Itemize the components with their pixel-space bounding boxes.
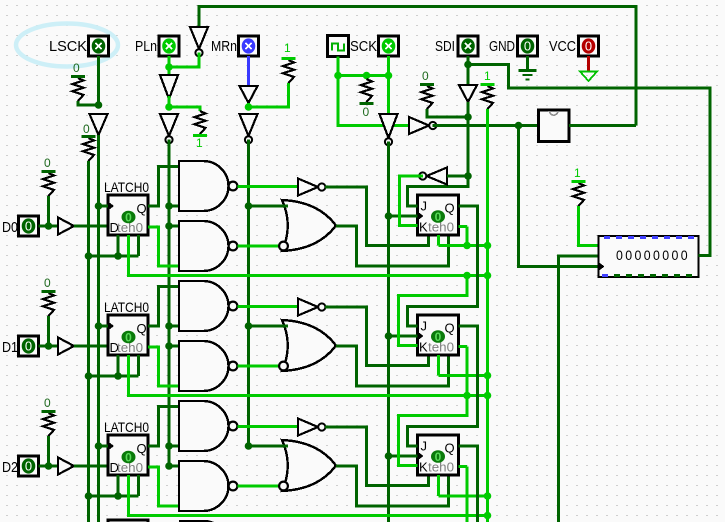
- wire MRn pin down: [247, 56, 250, 86]
- resistor pull-down on D0: [42, 156, 56, 196]
- wire register clock line down: [519, 126, 599, 267]
- svg-text:Q: Q: [445, 321, 455, 336]
- wire PLn node to buffer: [168, 67, 171, 75]
- wire buffer out down: [467, 102, 470, 176]
- junction PLn node: [165, 63, 173, 71]
- svg-text:LATCH0: LATCH0: [104, 179, 149, 195]
- wire D0 pin to buffer: [39, 225, 59, 228]
- partial NAND gate of next row at bottom edge: [179, 521, 228, 522]
- power symbol: [580, 72, 597, 82]
- inverter from top rail: [190, 27, 208, 56]
- svg-text:J: J: [421, 199, 428, 214]
- ground symbol: [519, 71, 537, 80]
- wire latch Q jog to NAND upper input row 0: [148, 167, 179, 207]
- wire MRn reset rail down: [247, 140, 250, 447]
- svg-text:D1: D1: [2, 339, 18, 356]
- buffer D0: [58, 218, 74, 235]
- wire NAND A out to inverter row 2: [238, 425, 299, 428]
- wire NAND A out to inverter row 0: [238, 185, 299, 188]
- junction SDI mid node: [464, 113, 472, 121]
- wire JK pin2 down row 2: [437, 475, 440, 496]
- wire Qn-pull tie row 1: [439, 374, 488, 377]
- wire clock branch to register-clock inverter: [338, 76, 409, 126]
- svg-text:1: 1: [284, 41, 291, 55]
- resistor pull on LSCK node: [71, 61, 85, 101]
- svg-text:0: 0: [422, 69, 429, 83]
- wire JK Qn out row 2: [459, 465, 468, 468]
- svg-text:0: 0: [83, 122, 90, 136]
- wire Qn2 drop: [466, 467, 469, 522]
- wire JK pin2 down row 0: [437, 235, 440, 246]
- junction D1 node: [45, 342, 53, 350]
- resistor pull-up source: [481, 69, 495, 109]
- wire latch pin1 down row 0: [117, 235, 120, 256]
- wire latch Q jog to NAND upper input row 1: [148, 287, 179, 327]
- buffer SDI: [459, 85, 477, 102]
- wire NAND B out to OR input row 0: [238, 245, 280, 248]
- wire resistor to D2 node: [47, 436, 50, 466]
- inverter PLn to load rail: [160, 114, 178, 143]
- svg-text:1: 1: [196, 136, 203, 150]
- resistor pull-up on MRn node: [282, 41, 296, 83]
- wire load rail to NAND A lower input row 0: [169, 205, 179, 208]
- wire Qn-pull tie row 2: [439, 495, 488, 498]
- svg-text:K: K: [419, 220, 428, 235]
- wire clock rail to latch clock: [99, 445, 109, 448]
- junction K2 feed tap: [463, 392, 471, 400]
- junction clock node left: [334, 72, 342, 80]
- wire JK Qn out row 1: [459, 345, 468, 348]
- wire reset rail to OR upper input row 1: [249, 325, 289, 328]
- inverter K0 from SDI: [419, 168, 447, 185]
- junction clock node right: [385, 72, 393, 80]
- wire inverter output to PLn node: [169, 53, 199, 68]
- svg-text:0: 0: [73, 61, 80, 75]
- wire reset rail to OR upper input row 0: [249, 205, 289, 208]
- junction D0 node: [45, 222, 53, 230]
- wire SDI node to inverter input: [447, 175, 468, 178]
- wire JK pin2 down row 1: [437, 355, 440, 376]
- wire latch Qn jog to NAND B lower input row 0: [148, 227, 179, 266]
- wire load rail to NAND A lower input row 2: [169, 445, 179, 448]
- junction shift clock tap row 2: [385, 452, 393, 460]
- svg-text:D2: D2: [2, 459, 18, 476]
- input pin D0: [19, 216, 39, 236]
- resistor pull-up on PLn buffered node: [193, 111, 207, 150]
- wire load rail to NAND B upper input row 1: [169, 345, 179, 348]
- svg-text:0: 0: [435, 210, 442, 224]
- wire OR out to JK clear pin row 0: [336, 226, 449, 266]
- svg-text:D0: D0: [2, 219, 18, 236]
- latch U-LATCH0: [108, 195, 148, 235]
- wire register output stub: [699, 254, 711, 257]
- wire resistor to D1 node: [47, 316, 50, 346]
- NAND gate B row 1: [179, 341, 237, 391]
- input pin LSCK: [89, 36, 109, 56]
- wire latch Qn jog to NAND B lower input row 2: [148, 467, 179, 506]
- wire latch enable tie row 2: [89, 495, 139, 498]
- wire load rail to NAND A lower input row 1: [169, 325, 179, 328]
- wire Q1 to J2 input: [408, 326, 478, 446]
- wire latch Qn jog to NAND B lower input row 1: [148, 347, 179, 386]
- wire resistor to D0 node: [47, 196, 50, 226]
- junction enable rail row 2: [85, 492, 93, 500]
- junction shift clock tap row 1: [385, 332, 393, 340]
- svg-text:0: 0: [25, 459, 32, 474]
- junction latch pin1 row 2: [114, 492, 122, 500]
- wire LSCK clock rail down left column: [97, 135, 100, 522]
- junction latch clock tap row 0: [95, 202, 103, 210]
- wire resistor to LSCK node: [78, 101, 99, 105]
- wire latch pin3 down row 0: [137, 235, 140, 256]
- NAND gate A row 2: [179, 401, 237, 451]
- NAND gate A row 1: [179, 281, 237, 331]
- resistor pull-down on SDI node: [420, 69, 434, 109]
- svg-text:GND: GND: [489, 38, 515, 55]
- output pin VCC: [579, 36, 599, 56]
- wire pull-up rail down right column: [486, 109, 489, 522]
- latch U-LATCH1: [108, 315, 148, 355]
- wire latch Q jog to NAND upper input row 2: [148, 407, 179, 447]
- wire clock rail to latch clock: [99, 205, 109, 208]
- junction latch pin1 row 1: [114, 372, 122, 380]
- wire Qn-pull tie row 0: [439, 244, 488, 247]
- wire PLn pin down: [168, 56, 171, 67]
- input pin SCK: [379, 36, 399, 56]
- wire top feedback rail from subcircuit output to PLn inverter: [199, 7, 636, 126]
- junction reset rail tap row 0: [245, 202, 253, 210]
- wire buffer out to node: [247, 103, 250, 107]
- JK flip-flop row 0: [418, 195, 459, 235]
- svg-text:0: 0: [25, 339, 32, 354]
- wire PLn load rail down: [168, 140, 171, 467]
- junction SDI tap for first stage: [464, 172, 472, 180]
- input pin D2: [19, 456, 39, 476]
- wire inverter out to JK preset pin row 2: [325, 427, 429, 486]
- wire reset rail to OR upper input row 2: [249, 445, 289, 448]
- wire SCK pin down to inverter: [387, 56, 390, 114]
- junction SDI top node: [464, 61, 472, 69]
- svg-text:0: 0: [435, 450, 442, 464]
- junction load rail tap B row 1: [165, 342, 173, 350]
- wire latch pin1 down row 1: [117, 355, 120, 376]
- wire node to pull-up resistor: [249, 83, 289, 107]
- junction reset rail tap row 1: [245, 322, 253, 330]
- output pin GND: [518, 36, 538, 56]
- junction latch clock tap row 2: [95, 442, 103, 450]
- wire latch pin2 long line row 1: [129, 355, 488, 396]
- wire latch enable tie row 0: [89, 255, 139, 258]
- NAND gate A row 0: [179, 161, 237, 211]
- svg-text:00000000: 00000000: [616, 248, 690, 263]
- wire latch-enable rail down: [87, 161, 90, 522]
- wire node to pull resistor: [365, 76, 368, 80]
- junction long line to pull-up rail row 1: [484, 392, 492, 400]
- shift register U2: [599, 236, 699, 277]
- wire shift clock rail to JK clock row 1: [389, 335, 418, 338]
- junction load rail tap A row 0: [165, 202, 173, 210]
- svg-text:PLn: PLn: [135, 38, 157, 55]
- junction Qn tie to rail row 2: [484, 492, 492, 500]
- wire NAND A out to inverter row 1: [238, 305, 299, 308]
- svg-text:MRn: MRn: [211, 38, 237, 55]
- wire OR out to JK clear pin row 1: [336, 346, 449, 386]
- input pin PLn: [159, 36, 179, 56]
- inverter row 1: [298, 299, 325, 316]
- inverter MRn to reset rail: [240, 114, 258, 143]
- NAND gate B row 2: [179, 461, 237, 511]
- wire buffer to latch D input: [74, 465, 108, 468]
- wire latch pin1 down row 2: [117, 475, 120, 496]
- svg-text:Q: Q: [445, 201, 455, 216]
- wire shift clock rail down: [387, 142, 390, 522]
- input pin MRn: [239, 36, 259, 56]
- junction load rail tap B row 2: [165, 462, 173, 470]
- svg-text:0: 0: [44, 396, 51, 410]
- wire shift clock rail to JK clock row 0: [389, 215, 418, 218]
- svg-text:Q: Q: [137, 441, 147, 456]
- buffer LSCK: [90, 114, 108, 135]
- wire register output loop to SDI node: [470, 65, 710, 256]
- wire Q0 to J1 input: [408, 206, 478, 326]
- wire latch pin2 long line row 0: [129, 235, 488, 276]
- wire JK Qn out row 0: [459, 225, 468, 228]
- wire buffer to latch D input: [74, 225, 108, 228]
- svg-text:Q: Q: [137, 201, 147, 216]
- junction enable rail row 1: [85, 372, 93, 380]
- svg-text:0: 0: [44, 156, 51, 170]
- junction K1 feed tap: [463, 272, 471, 280]
- junction PLn buffered node: [165, 103, 173, 111]
- wire resistor to SDI node: [427, 109, 468, 117]
- svg-text:LSCK: LSCK: [49, 38, 87, 55]
- junction D2 node: [45, 462, 53, 470]
- resistor pull-down on D2: [42, 396, 56, 436]
- junction LSCK node: [95, 101, 103, 109]
- inverter row 2: [298, 419, 325, 436]
- inverter row 0: [298, 179, 325, 196]
- wire clock out down: [337, 57, 340, 76]
- junction enable rail row 0: [85, 252, 93, 260]
- JK flip-flop row 1: [418, 315, 459, 355]
- svg-text:J: J: [421, 319, 428, 334]
- svg-text:1: 1: [574, 166, 581, 180]
- svg-text:0: 0: [585, 39, 592, 54]
- junction load rail tap A row 2: [165, 442, 173, 450]
- junction Qn tie to rail row 1: [484, 372, 492, 380]
- wire load rail to NAND B upper input row 0: [169, 225, 179, 228]
- wire load rail to NAND B upper input row 2: [169, 465, 179, 468]
- junction MRn buffered node: [245, 103, 253, 111]
- junction long line to pull-up rail row 2: [484, 512, 492, 520]
- svg-text:0: 0: [25, 219, 32, 234]
- svg-text:0: 0: [524, 39, 531, 54]
- wire SDI pin down: [467, 56, 470, 85]
- buffer PLn: [160, 75, 178, 99]
- svg-text:VCC: VCC: [549, 38, 576, 55]
- resistor pull-down on D1: [42, 276, 56, 316]
- wire clock rail to latch clock: [99, 325, 109, 328]
- wire LSCK pin down: [97, 56, 100, 105]
- partial latch of next row at bottom edge: [108, 520, 148, 522]
- junction Qn0 tie: [463, 242, 471, 250]
- wire latch pin3 down row 2: [137, 475, 140, 496]
- svg-text:LATCH0: LATCH0: [104, 419, 149, 435]
- svg-text:J: J: [421, 439, 428, 454]
- svg-text:Q: Q: [445, 441, 455, 456]
- OR gate with inverted input row 0: [279, 200, 336, 251]
- svg-text:0: 0: [125, 211, 132, 225]
- wire inverter out to JK preset pin row 0: [325, 187, 429, 246]
- wire VCC pin down: [587, 56, 590, 71]
- junction shift clock tap row 0: [385, 212, 393, 220]
- svg-text:0: 0: [125, 331, 132, 345]
- wire resistor to register pin: [579, 206, 599, 246]
- JK flip-flop row 2: [418, 435, 459, 475]
- wire Q2 down off-page: [459, 446, 478, 522]
- svg-text:1: 1: [484, 69, 491, 83]
- wire SDI to J0 input: [408, 176, 469, 206]
- wire GND pin down: [526, 56, 529, 70]
- OR gate with inverted input row 2: [279, 440, 336, 491]
- buffer MRn: [240, 86, 258, 103]
- wire OR out to JK clear pin row 2: [336, 466, 449, 506]
- svg-text:0: 0: [435, 330, 442, 344]
- svg-text:K: K: [419, 340, 428, 355]
- subcircuit buffer box U1: [539, 110, 570, 142]
- wire Qn1 drop merged with K2 feed: [399, 347, 468, 466]
- junction register clock tap: [515, 122, 523, 130]
- buffer D1: [58, 338, 74, 355]
- wire Qn0 drop: [466, 227, 469, 246]
- resistor pull-up register enable: [572, 166, 586, 206]
- wire register serial-in line: [559, 256, 599, 522]
- wire inverter out to subcircuit: [433, 124, 539, 127]
- wire inverter out to K0 input: [400, 176, 424, 226]
- wire NAND B out to OR input row 1: [238, 365, 280, 368]
- wire node to pull resistor: [169, 107, 200, 111]
- inverter to register clock line: [409, 117, 436, 134]
- highlight oval around LSCK pin: [16, 24, 118, 67]
- junction latch pin1 row 0: [114, 252, 122, 260]
- junction Qn tie to rail row 0: [484, 242, 492, 250]
- wire NAND B out to OR input row 2: [238, 485, 280, 488]
- inverter SCK to shift clock rail: [380, 114, 398, 145]
- wire buffer out to node: [168, 96, 171, 107]
- resistor pull-down on SCK node: [360, 79, 374, 119]
- wire latch pin3 down row 1: [137, 355, 140, 376]
- svg-text:0: 0: [44, 276, 51, 290]
- wire D1 pin to buffer: [39, 345, 59, 348]
- wire buffer to latch D input: [74, 345, 108, 348]
- wire subcircuit output to top rail: [569, 124, 636, 127]
- svg-text:0: 0: [125, 451, 132, 465]
- svg-text:Q: Q: [137, 321, 147, 336]
- junction long line to pull-up rail row 0: [484, 272, 492, 280]
- wire K1 feed jog from pull-up line: [399, 276, 468, 346]
- NAND gate B row 0: [179, 221, 237, 271]
- svg-text:K: K: [419, 460, 428, 475]
- wire shift clock rail to JK clock row 2: [389, 455, 418, 458]
- wire inverter out to JK preset pin row 1: [325, 307, 429, 366]
- junction load rail tap A row 1: [165, 322, 173, 330]
- wire latch pin2 long line row 2: [129, 475, 488, 516]
- svg-text:SCK: SCK: [350, 38, 377, 55]
- junction clock node mid: [363, 72, 371, 80]
- OR gate with inverted input row 1: [279, 320, 336, 371]
- svg-text:LATCH0: LATCH0: [104, 299, 149, 315]
- svg-text:SDI: SDI: [435, 38, 455, 55]
- junction load rail tap B row 0: [165, 222, 173, 230]
- latch U-LATCH2: [108, 435, 148, 475]
- junction reset rail tap row 2: [245, 442, 253, 450]
- input pin D1: [19, 336, 39, 356]
- junction latch clock tap row 1: [95, 322, 103, 330]
- resistor pull on latch-enable rail: [82, 122, 96, 161]
- buffer D2: [58, 458, 74, 475]
- wire D2 pin to buffer: [39, 465, 59, 468]
- svg-text:0: 0: [363, 105, 370, 119]
- input pin SDI: [458, 36, 478, 56]
- wire clock node across: [338, 74, 389, 77]
- clock source: [328, 36, 349, 57]
- wire latch enable tie row 1: [89, 375, 139, 378]
